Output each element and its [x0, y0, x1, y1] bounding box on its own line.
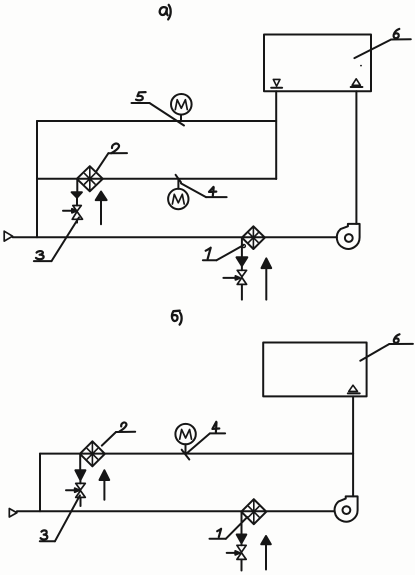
arrow up into exchanger 1 — [262, 258, 272, 268]
arrow down from exchanger 2 — [76, 179, 78, 192]
label 5 — [136, 92, 146, 100]
label 6 (lower) — [394, 334, 400, 343]
tank 6 box — [264, 35, 371, 92]
label 1 — [206, 248, 211, 259]
level mark (inverted triangle) in tank 6 — [273, 79, 280, 86]
wire: middle horizontal pipe — [37, 178, 276, 180]
wire: upper horizontal pipe — [37, 120, 276, 122]
label b) — [172, 311, 180, 321]
motor valve M4 — [168, 189, 188, 209]
motor valve M4 (lower) — [175, 424, 195, 444]
wire: lower horizontal pipe — [40, 453, 353, 455]
valve 3 (lower) — [76, 483, 86, 490]
pump (lower) — [335, 496, 358, 521]
vent mark (triangle) in lower tank — [349, 385, 358, 391]
label 2 (lower) — [120, 422, 127, 431]
label 6 — [394, 29, 400, 38]
heat exchanger 1 — [242, 226, 265, 249]
wire: pump outlet riser — [355, 91, 357, 224]
label 4 — [209, 187, 216, 196]
arrow up into exchanger 2 — [96, 192, 107, 201]
motor valve M5 — [171, 94, 192, 115]
tank 6 box (lower) — [263, 343, 366, 397]
label 3 — [36, 251, 44, 259]
heat exchanger 1 (lower) — [241, 499, 266, 524]
heat exchanger 2 — [77, 166, 103, 191]
flow inlet triangle — [4, 231, 12, 241]
arrow up into exchanger 2 (lower) — [100, 470, 110, 480]
arrow down from exchanger 1 — [241, 238, 243, 258]
arrow up into exchanger 1 (lower) — [261, 536, 271, 544]
wire: main bottom pipe — [13, 236, 337, 238]
arrow down from exchanger 2 (lower) — [79, 454, 81, 471]
valve below exchanger 1 — [237, 270, 246, 277]
vent mark (triangle) in tank 6 — [352, 79, 360, 86]
wire: main bottom pipe (lower) — [17, 510, 335, 512]
label a) — [160, 7, 168, 15]
arrow down from exchanger 1 (lower) — [241, 512, 243, 535]
valve 3 — [73, 206, 82, 212]
heat exchanger 2 (lower) — [80, 441, 105, 466]
wire: left riser (lower) — [39, 454, 41, 512]
valve below exchanger 1 (lower) — [237, 545, 246, 552]
wire: lower tank drop pipe to pump — [352, 396, 354, 496]
wire: left riser — [36, 121, 38, 237]
label 4 (lower) — [212, 422, 219, 432]
pump — [337, 224, 360, 249]
wire: tank 6 left drop pipe — [275, 91, 277, 179]
flow inlet triangle (lower) — [9, 509, 17, 518]
label 3 (lower) — [41, 530, 48, 539]
label 2 — [111, 144, 119, 154]
label 1 (lower) — [217, 529, 221, 537]
